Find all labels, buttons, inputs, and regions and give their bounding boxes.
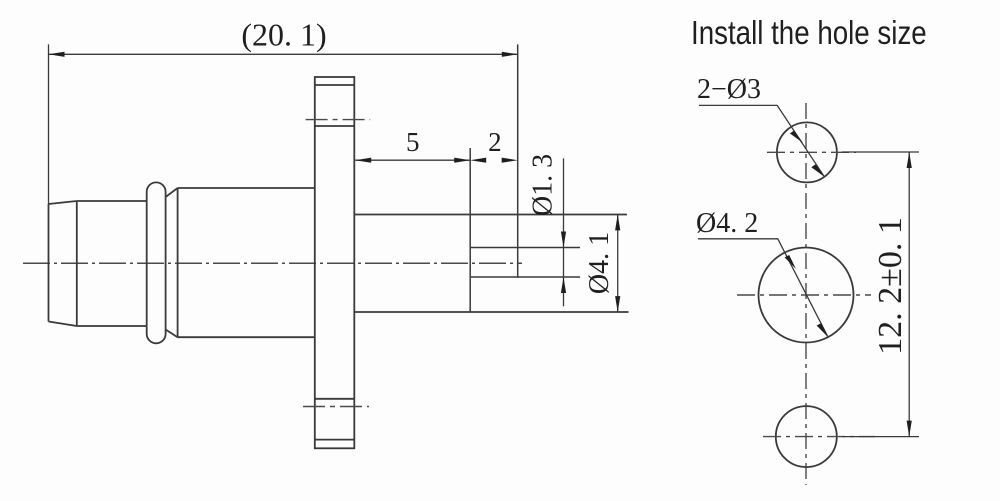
hole pattern vertical centerline bbox=[805, 103, 807, 485]
barrel right face and extension line bbox=[517, 44, 519, 277]
leader for 2-dia3 bbox=[699, 105, 824, 176]
leader for dia 4.2 bbox=[698, 239, 828, 337]
svg-text:2: 2 bbox=[488, 127, 502, 157]
main body top edge bbox=[178, 187, 315, 189]
dimension (20.1) bbox=[49, 44, 518, 204]
svg-text:Install the hole size: Install the hole size bbox=[691, 15, 927, 52]
body top chamfer bbox=[166, 188, 178, 197]
barrel bottom edge with dia extension bbox=[354, 311, 628, 313]
svg-text:2−Ø3: 2−Ø3 bbox=[697, 74, 761, 105]
pin bottom edge with extension bbox=[470, 276, 580, 278]
cone nose bottom taper bbox=[49, 322, 77, 327]
main body left shoulder bbox=[177, 188, 179, 337]
svg-text:(20. 1): (20. 1) bbox=[241, 17, 326, 53]
flange outline bbox=[315, 77, 355, 448]
flange top tab line 2 bbox=[315, 125, 355, 127]
small cylinder bottom edge bbox=[77, 325, 147, 327]
top hole centerline bbox=[767, 151, 856, 153]
flange top hole centerline bbox=[306, 119, 371, 121]
svg-text:5: 5 bbox=[406, 127, 420, 157]
dimension 12.2 +/- 0.1 bbox=[842, 152, 919, 437]
flange top tab line 1 bbox=[315, 84, 355, 86]
svg-text:Ø4. 1: Ø4. 1 bbox=[584, 232, 615, 294]
bottom hole centerline bbox=[763, 436, 875, 438]
main body bottom edge bbox=[178, 336, 315, 338]
cone/cylinder junction line bbox=[76, 201, 78, 326]
o-ring capsule bbox=[147, 182, 166, 343]
bottom hole circle bbox=[776, 406, 837, 467]
dimension 2 bbox=[470, 158, 518, 163]
dimension 5 bbox=[355, 159, 470, 161]
cone nose left face bbox=[48, 204, 50, 322]
cone nose top taper bbox=[49, 201, 77, 204]
middle hole circle bbox=[759, 248, 854, 343]
top hole circle bbox=[777, 122, 837, 182]
svg-text:12. 2±0. 1: 12. 2±0. 1 bbox=[872, 217, 909, 355]
svg-text:Ø4. 2: Ø4. 2 bbox=[696, 208, 758, 239]
dimension dia 4.1 bbox=[617, 214, 619, 312]
barrel top edge with dia extension bbox=[354, 214, 627, 216]
flange bottom tab line 1 bbox=[315, 398, 355, 400]
flange bottom hole centerline bbox=[303, 406, 369, 408]
middle hole centerline bbox=[737, 294, 871, 296]
svg-text:Ø1. 3: Ø1. 3 bbox=[528, 154, 559, 216]
main axis centerline bbox=[23, 262, 522, 264]
barrel bore shoulder and extension line bbox=[469, 148, 471, 312]
small cylinder top edge bbox=[77, 200, 147, 202]
flange bottom tab line 2 bbox=[315, 439, 355, 441]
body bottom chamfer bbox=[166, 330, 178, 338]
dimension dia 1.3 bbox=[563, 158, 565, 306]
pin top edge with extension bbox=[470, 247, 580, 249]
